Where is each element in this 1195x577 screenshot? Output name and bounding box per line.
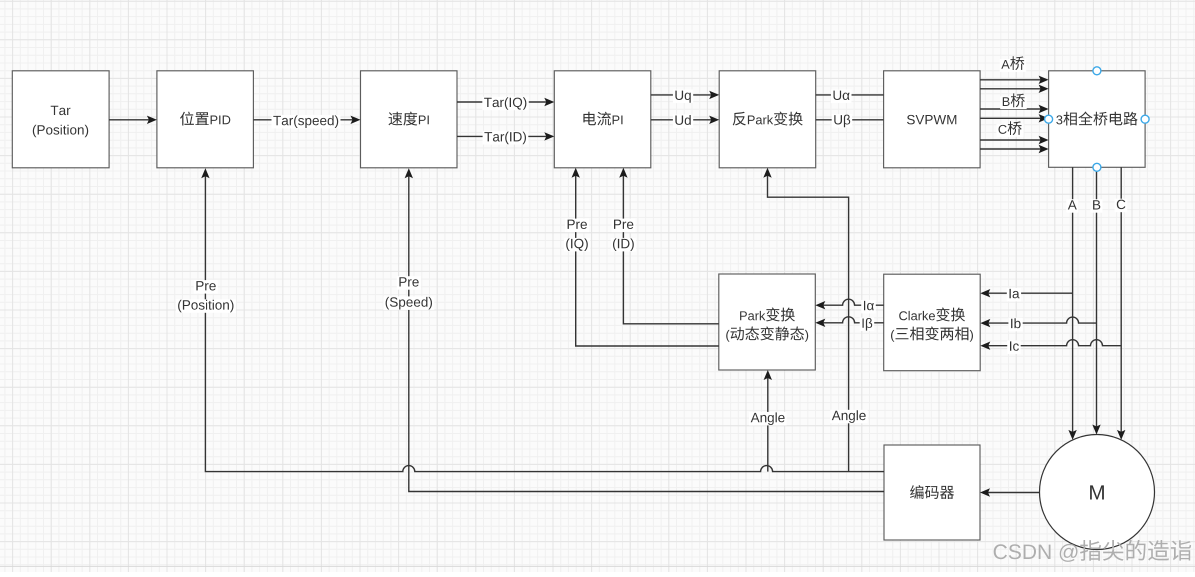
wire SVPWM to bridge line 5	[980, 139, 1042, 141]
label Pre Speed 2	[383, 296, 434, 310]
label Tar(IQ)	[482, 97, 529, 111]
label Tar(speed)	[272, 115, 341, 128]
label Pre IQ 2	[564, 238, 590, 252]
label C	[1115, 199, 1128, 213]
label Ic	[1007, 340, 1021, 354]
label Clarke变换	[899, 308, 965, 322]
label Pre Position 2	[176, 299, 236, 313]
box Clarke变换	[884, 274, 981, 371]
label I-beta	[860, 318, 875, 332]
box 编码器	[884, 445, 980, 540]
connection dot bottom of bridge box	[1093, 163, 1101, 171]
wire Ib tap	[987, 317, 1097, 323]
wire speed feedback bus	[409, 175, 884, 492]
box Tar(Position)	[12, 71, 109, 168]
wire SVPWM to bridge line 3	[980, 108, 1042, 110]
label 3相全桥电路	[1056, 112, 1137, 126]
wire Angle into Park	[767, 377, 769, 472]
label 反Park变换	[733, 112, 803, 126]
label SVPWM	[907, 115, 956, 125]
wire SVPWM to bridge line 4	[980, 117, 1042, 119]
wire 反Park to SVPWM Ua	[816, 94, 884, 96]
wire Ia tap	[987, 292, 1073, 294]
label Ub	[832, 114, 853, 128]
box 反Park变换	[719, 71, 816, 168]
label I-alpha	[861, 300, 876, 314]
label Tar(ID)	[483, 131, 529, 145]
label Ua	[831, 90, 852, 104]
label Angle right	[830, 410, 868, 424]
label A	[1066, 199, 1078, 213]
box 速度PI	[361, 71, 458, 168]
wire 位置PID to 速度PI (Tar(speed))	[253, 119, 354, 121]
label (动态变静态)	[726, 327, 808, 342]
connection dot top of bridge box	[1093, 67, 1101, 75]
wire phase B vertical	[1096, 167, 1098, 428]
wire Tar(Position) to 位置PID	[109, 119, 150, 121]
label 编码器	[910, 485, 954, 499]
label A桥	[1000, 59, 1026, 72]
wire SVPWM to bridge line 2	[980, 88, 1042, 90]
wire 电流PI to 反Park Ud	[651, 119, 713, 121]
connection dot left of bridge box	[1045, 115, 1053, 123]
connection dot right of bridge box	[1141, 115, 1149, 123]
label B	[1091, 199, 1103, 213]
label B桥	[1000, 96, 1026, 109]
box Park变换	[719, 274, 816, 370]
label C桥	[996, 124, 1023, 137]
label Pre IQ 1	[565, 219, 589, 233]
wire Ic tap	[987, 340, 1121, 346]
wire Angle into 反Park	[768, 174, 849, 471]
label Tar	[51, 106, 71, 115]
label Ib	[1008, 318, 1022, 332]
wire Pre(ID) Park to 电流PI	[623, 174, 718, 323]
wire phase A vertical	[1072, 167, 1074, 433]
label 速度PI	[389, 112, 429, 126]
wire Pre(IQ) Park to 电流PI	[576, 174, 719, 346]
label Pre ID 2	[611, 238, 637, 252]
label M	[1090, 485, 1104, 499]
box 电流PI	[554, 71, 651, 168]
wire I-alpha Clarke to Park	[822, 299, 884, 305]
label Ia	[1007, 288, 1021, 302]
box SVPWM	[884, 71, 981, 168]
label Pre Speed 1	[397, 276, 421, 290]
box 3相全桥电路	[1049, 71, 1146, 168]
page boundary line	[0, 565, 1195, 567]
label 电流PI	[583, 112, 622, 126]
wire 反Park to SVPWM Ub	[816, 119, 884, 121]
label Angle left	[749, 412, 787, 426]
label 位置PID	[180, 112, 230, 126]
label Uq	[673, 90, 693, 104]
wire SVPWM to bridge line 6	[980, 148, 1042, 150]
wire 速度PI to 电流PI Tar(IQ)	[457, 101, 548, 103]
wire phase C vertical	[1120, 167, 1122, 433]
label (Position)	[33, 125, 88, 138]
box 位置PID	[157, 71, 254, 168]
motor M circle	[1040, 435, 1155, 550]
label Park变换	[740, 308, 795, 322]
wire motor to encoder	[987, 492, 1040, 494]
watermark CSDN	[994, 540, 1191, 562]
label Pre ID 1	[611, 219, 635, 233]
wire position feedback bus	[205, 175, 884, 472]
label Pre Position 1	[194, 280, 218, 294]
wire SVPWM to bridge line 1	[980, 79, 1042, 81]
label Ud	[673, 115, 693, 129]
wire 电流PI to 反Park Uq	[651, 94, 713, 96]
label (三相变两相)	[891, 327, 973, 342]
wire I-beta Clarke to Park	[822, 317, 884, 323]
wire 速度PI to 电流PI Tar(ID)	[457, 135, 548, 137]
